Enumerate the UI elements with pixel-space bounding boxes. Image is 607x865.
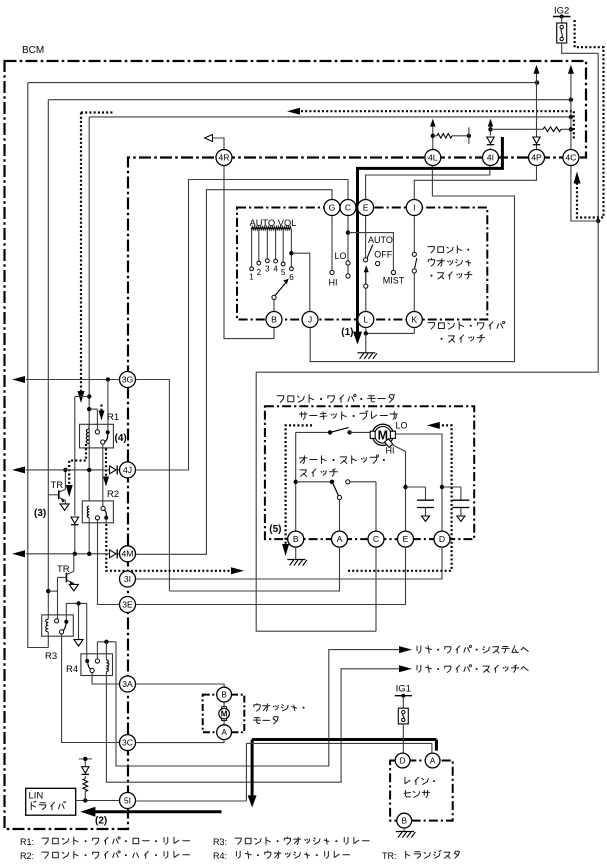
label front wiper switch line2 [441,335,485,343]
connector G [324,200,340,216]
arrow 4I up to rail C [488,119,493,127]
arrow 4M line exits left [12,550,25,557]
svg-text:E: E [363,202,369,212]
dotted wire (5) to B ground [286,425,312,544]
label auto stop line1 [299,455,384,464]
arrow 4L up to rail C [430,119,436,127]
node LIN diode chain [83,798,87,802]
svg-text:R3:: R3: [213,837,227,847]
wire R2 fixed to 3E [98,520,120,605]
node 4L resistor tap [431,134,435,138]
svg-text:4M: 4M [122,549,134,559]
arrow thick wire (1) down [353,332,362,345]
circuit breaker contacts [328,428,352,435]
label rear wiper system [417,645,528,653]
wire R1 common up [107,380,109,431]
label washer motor line2 [253,717,278,724]
capacitor E line [406,487,435,522]
contact AUTO tick [367,245,373,259]
label (2) [95,816,107,827]
svg-text:E: E [403,534,409,544]
wire bus C to diode branch [75,397,89,516]
wire L K common [366,328,415,334]
wire bus C down [88,117,90,501]
wire LIN to 5I [76,800,120,802]
front wiper switch outline (dash-dot box) [237,208,487,320]
label auto stop line2 [300,469,337,477]
svg-text:D: D [400,756,406,765]
label front washer switch line3 [430,272,471,279]
wire 5I to rain sensor A [136,743,432,801]
svg-text:G: G [329,202,336,212]
fuse IG2 [557,17,567,44]
label HI motor [386,446,395,456]
dotted rail vertical left [80,113,82,396]
relay R2 box [82,501,113,523]
wire C to LO contact [346,216,350,266]
connector D motor [434,531,450,547]
legend R4 [213,851,350,861]
connector C [340,200,356,216]
svg-text:3G: 3G [122,374,134,384]
wire washer switch upper [412,216,416,257]
wire breaker left [296,431,330,433]
svg-text:TR:: TR: [382,851,397,861]
svg-text:MIST: MIST [383,276,405,286]
label 3 [265,265,270,274]
wire G feed from 4M [136,190,333,555]
wire 4M internal line [26,553,120,555]
wire 3A to washer motor B [136,684,225,687]
arrow dotted (5) down at B ground [282,544,289,556]
arrow dotted (3) down [66,485,73,497]
wire pot terminal 6 [290,229,294,270]
svg-text:5I: 5I [124,795,131,805]
arrow dotted (5) left into motor [427,422,440,429]
dotted harness IG2 down right edge [575,20,604,218]
contact auto stop fixed [346,480,376,532]
dotted wire (4) upper [99,405,105,421]
diode to 4J [110,465,118,474]
connector 4M [120,546,136,562]
connector E [358,200,374,216]
open arrow 4R stub [205,135,213,142]
diode LIN chain [82,767,90,779]
wire R3 common up-over to R4 [66,603,86,659]
wire E to AUTO contact [364,216,368,262]
washer motor outline (dash-dot box) [203,695,245,733]
transistor TR2 [58,554,74,585]
label HI switch [329,278,338,288]
label 1 [249,273,254,282]
svg-text:(2): (2) [95,816,107,827]
wire pot terminal 3 [265,229,269,262]
arrow thick (2) down [248,795,257,807]
connector 5I [120,793,136,809]
label (1) [341,327,353,338]
node 4C resistor tap [569,127,573,131]
node 4J line bus junction [87,468,91,472]
wire 4P vertical [536,72,538,150]
resistor LIN chain [83,779,88,801]
front wiper motor outline (dash-dot box) [265,406,474,539]
relay R4 box [81,654,113,676]
IG2 label [554,6,569,17]
arrow 4C up [568,65,574,74]
svg-text:R3: R3 [45,651,57,662]
node R1 common tap [106,377,110,381]
wire R4 coil to rear wiper switch [106,669,404,782]
wire 4L pull-up [432,124,434,150]
svg-text:LO: LO [396,421,408,431]
resistor 4I to 4C [491,127,571,132]
node branch to triangle [76,601,80,605]
dotted rail right segment [301,111,574,139]
terminal bar LIN chain [79,757,92,767]
label LIN driver kana [31,801,65,809]
wire B common [295,432,297,531]
svg-text:A: A [430,756,436,765]
svg-text:TR: TR [57,564,70,575]
label R1 [107,412,119,423]
arrow dotted (5) rightward [231,567,244,574]
wire TR2 base to R3 [57,577,59,618]
label rain sensor line2 [404,790,429,797]
relay R2 coil [87,506,89,554]
svg-text:4: 4 [273,265,278,274]
svg-text:LIN: LIN [29,791,44,802]
label rain sensor line1 [405,777,435,784]
diode on 4I line [487,137,494,145]
label 5 [281,268,286,277]
node IG2/4C junction [596,219,600,223]
wire bus B branch to R3 contact [48,590,57,592]
wire bus A down [28,83,49,648]
svg-text:L: L [363,314,368,324]
label (4) [115,433,127,444]
label front washer switch line2 [428,259,470,267]
relay R3 contacts [55,619,69,634]
label AUTO VOL [250,218,297,228]
wire branch to R1 NC [89,409,97,430]
svg-text:3: 3 [265,265,270,274]
connector C motor [368,531,384,547]
ground triangle R3 branch [74,640,83,647]
wire IG2 fuse to right rail [562,43,599,53]
node 4I resistor tap [488,127,492,131]
svg-text:4P: 4P [531,152,542,162]
wire IG1 to rain D [402,724,404,753]
wire right rail down to 4C junction [597,53,599,221]
svg-text:(5): (5) [269,524,281,535]
label washer motor line1 [254,704,305,712]
dotted wire (5) lower left segment [106,524,237,571]
svg-text:A: A [221,728,227,737]
wire rail A (4P feed) [28,82,537,84]
svg-text:R2:: R2: [20,851,34,861]
svg-text:(1): (1) [341,327,353,338]
wire bus B down [47,100,49,615]
contact washer blade [415,258,417,268]
svg-text:4C: 4C [565,152,576,162]
wire E motor to 3E [136,547,406,605]
svg-text:4R: 4R [219,152,230,162]
svg-text:(4): (4) [115,433,127,444]
wire pot terminal 1 [250,229,254,270]
label (5) [269,524,281,535]
connector J [302,312,318,328]
node rail A / 4P [535,80,539,84]
diode bus C branch [71,517,79,525]
label TR upper [51,480,64,491]
connector B rain [397,813,412,828]
relay R3 coil [46,615,49,648]
label front wiper switch line1 [428,321,505,329]
wire motor LO to D [395,434,442,532]
wire E to 4I [366,166,490,200]
node pot wiper junction [289,251,293,255]
wire motor HI to E [392,445,406,532]
svg-text:1: 1 [249,273,254,282]
node bus C branch upper [87,394,91,398]
connector 3I [120,571,136,587]
ground triangle TR1 [60,504,69,511]
node rail B / 4C [569,98,573,102]
ground B motor [287,547,307,565]
wire R3 arm to 3C [62,634,120,743]
arrow dotted rail left [287,108,300,115]
svg-text:TR: TR [51,480,64,491]
wire 4C external to motor common [256,166,598,632]
svg-text:3I: 3I [124,574,131,584]
label R3 [45,651,57,662]
connector A motor [332,531,348,547]
node L ground junction [364,331,368,335]
resistor on 4L tap [433,134,467,139]
svg-text:J: J [308,314,312,324]
connector B washer [217,687,232,702]
relay R1 box [80,424,114,448]
arrow 4J line exits left [12,466,25,473]
svg-text:B: B [221,690,227,699]
motor M washer [219,702,230,725]
relay R1 coil [86,424,89,443]
ground B rain [396,828,416,838]
arrow dotted rail down at R1 [78,391,85,403]
arrow to rear wiper system [399,646,412,653]
contact switch arm lower [346,265,350,278]
wire diode to 4M line [74,525,76,554]
thick wire (2) rain sensor side [252,740,436,798]
arrow to rear wiper switch [399,665,412,672]
svg-text:R4:: R4: [213,851,227,861]
diode to 4M [110,549,118,558]
contact OFF [376,261,380,265]
node TR1 collector junction [63,468,67,472]
connector K [406,312,422,328]
label front washer switch line1 [428,246,469,253]
node E capacitor branch [403,485,407,489]
legend TR [382,850,459,861]
svg-text:I: I [413,202,415,212]
wire pot terminal 5 [281,229,285,266]
connector A washer [217,725,232,740]
wire pot terminal 2 [257,229,261,265]
connector 4J [120,462,136,478]
wire R2 common stub [105,520,107,524]
wire 4R to B [224,166,274,339]
node 4M line coil junction [87,552,91,556]
connector 4R [216,150,232,166]
connector L [358,312,374,328]
svg-text:4J: 4J [123,465,132,475]
wire C to MIST contact [348,233,396,275]
wire R4 arm to 3A [92,673,119,684]
wire R1 arm to R2 [102,444,104,506]
relay R1 contacts [95,430,109,444]
svg-text:5: 5 [281,268,286,277]
svg-text:C: C [345,202,351,212]
label TR lower [57,564,70,575]
wire 4R stub [212,138,224,150]
node bus B to R3 contact [46,589,50,593]
node C mist branch [346,230,350,234]
arrow 3G line exits left [12,376,25,383]
legend R1 [20,837,189,847]
connector A rain [425,753,440,768]
thick wire (1) from diode node to switch ground [358,137,503,332]
svg-text:C: C [373,534,379,544]
connector E motor [398,531,414,547]
dotted wire (5) lower right segment [348,570,452,572]
BCM label [22,45,44,56]
label IG1 [396,684,411,695]
label LO motor [396,421,408,431]
connector 4L [425,150,441,166]
connector 4I [483,150,499,166]
wire 4I pull-up line [490,124,492,150]
svg-text:R1:: R1: [20,837,34,847]
node auto stop common [294,480,298,484]
IG1 supply bar [395,694,412,698]
arrow dotted harness into BCM near 4C [574,172,581,184]
connector I [406,200,422,216]
wire auto stop row [296,481,332,483]
label R4 [66,664,78,675]
connector 3G [120,372,136,388]
switch arm wiper mode [364,265,369,311]
label LO switch [334,251,346,261]
thick wire (2) LIN side [95,810,222,813]
connector 3A [120,676,136,692]
svg-text:A: A [337,534,343,544]
connector B motor [288,531,304,547]
capacitor D line [442,487,469,522]
connector D rain [395,753,410,768]
motor M front wiper [370,424,395,447]
relay R3 box [42,615,74,636]
legend R2 [20,851,189,861]
label (3) [34,508,46,519]
node bus C branch lower [87,407,91,411]
label rear wiper switch [417,665,528,673]
label front wiper motor [277,394,394,402]
label R2 [107,489,119,500]
svg-text:B: B [293,534,299,544]
svg-text:M: M [221,710,228,719]
wire 3C to washer motor A [136,740,225,743]
svg-text:LO: LO [334,251,346,261]
legend R3 [213,837,369,847]
label circuit breaker [299,411,397,420]
relay R4 contacts [85,659,99,673]
wire A motor to 3G [136,380,340,592]
contact auto stop blade [330,480,339,496]
wire branch down [78,603,80,639]
svg-text:D: D [439,534,445,544]
wire I to 4P [414,166,536,200]
label LIN [29,791,44,802]
dotted wire (5) motor side [434,425,452,570]
arrow 4P up [534,65,540,74]
wire 4C vertical [570,72,572,150]
label 6 [289,273,294,282]
LIN driver box [26,788,76,815]
node R4 coil feed [104,640,108,644]
wire 3G internal line [26,379,120,381]
fuse IG1 [398,696,408,724]
resistor chain AUTO VOL [251,227,291,230]
contact auto stop arm [337,495,341,531]
svg-text:(3): (3) [34,508,46,519]
svg-text:3E: 3E [122,599,133,609]
connector B switch [266,312,282,328]
label OFF [374,250,392,260]
svg-text:R2: R2 [107,489,119,500]
dotted rail upper left segment [81,111,114,113]
dotted wire (4) lower [103,449,109,487]
wire pot terminal 4 [274,229,278,263]
wire rail C [89,116,571,118]
ground triangle TR2 [69,584,78,591]
wire rail B (4C feed) [48,99,571,101]
node rail C / 4C [569,115,573,119]
relay R4 coil [106,658,109,675]
svg-text:R4: R4 [66,664,78,675]
svg-text:IG1: IG1 [396,684,411,695]
svg-text:6: 6 [289,273,294,282]
svg-text:4I: 4I [487,152,494,162]
connector 3C [120,735,136,751]
arrow thick (2) left [80,807,95,817]
wire R4 feed to rear wiper system [116,642,404,766]
svg-text:3A: 3A [122,679,133,689]
connector 4C [563,150,579,166]
svg-text:HI: HI [386,446,395,456]
wire pot to J [291,253,309,311]
svg-text:M: M [378,428,388,442]
label 4 [273,265,278,274]
wire R4 coil feed down [105,642,107,658]
svg-text:3C: 3C [122,738,133,748]
svg-text:OFF: OFF [374,250,392,260]
svg-text:K: K [411,314,417,324]
connector 3E [120,597,136,613]
terminal stub right of 4L resistor [467,127,471,144]
transistor TR1 [48,471,65,504]
diode on 4P line [533,137,540,145]
wire C feed from 4J [136,180,349,471]
